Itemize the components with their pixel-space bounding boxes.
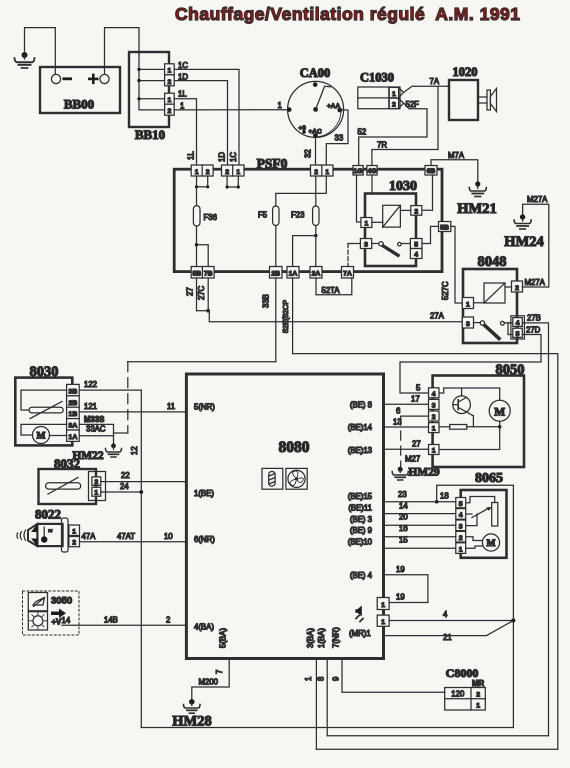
8080 pin (BE) 4 (350, 571, 373, 580)
3050 label (51, 596, 72, 607)
svg-text:14: 14 (62, 616, 71, 625)
wire 6 (8050 pin2 to M27 dashed) (396, 406, 429, 466)
8080 pin (BE)11 (348, 504, 372, 513)
svg-text:2: 2 (168, 79, 172, 86)
8065 potentiometer (466, 497, 498, 527)
svg-text:4: 4 (516, 320, 520, 327)
svg-text:(BE) 4: (BE) 4 (350, 571, 373, 580)
svg-text:(MR)1: (MR)1 (349, 629, 371, 638)
svg-text:2: 2 (94, 479, 98, 486)
svg-text:5B: 5B (440, 225, 449, 232)
8050 transistor (453, 396, 474, 427)
svg-text:F5: F5 (258, 211, 268, 220)
wire net12 bottom link (141, 727, 513, 729)
svg-text:9: 9 (331, 677, 340, 681)
relay 8048 (463, 254, 517, 343)
svg-text:10: 10 (164, 532, 173, 541)
wire 33 (CA00 to PSF0) (326, 110, 348, 165)
wire 22 (8032 pin2 to 8080 1BE) (101, 471, 187, 482)
svg-text:1C: 1C (178, 61, 188, 70)
8050 resistor (439, 425, 502, 430)
8050 pin 4 (429, 388, 440, 398)
wire 27 (8080 BE13 to 8050 second pin1) (384, 440, 429, 450)
8022 pin 1 (69, 525, 80, 536)
heater unit 8030 (15, 364, 72, 445)
BB10 pin 2 (1) (165, 104, 175, 115)
wire 27 (from 5B) (186, 278, 197, 311)
svg-text:5: 5 (516, 331, 520, 338)
8030 pin 3B (67, 384, 80, 395)
svg-text:BB00: BB00 (64, 97, 94, 112)
8080 pin 5(NR) (194, 403, 215, 412)
relay 1030 coil (383, 205, 401, 227)
svg-text:2: 2 (515, 285, 519, 292)
svg-text:5B: 5B (192, 271, 201, 278)
svg-text:1A: 1A (69, 434, 78, 441)
svg-text:1: 1 (476, 703, 480, 710)
8080 aux connector 1 (lower) (377, 615, 389, 626)
svg-text:3050: 3050 (51, 596, 72, 607)
wire 4 (aux connector to junction) (389, 610, 515, 623)
svg-text:22: 22 (121, 471, 130, 480)
svg-text:2: 2 (392, 102, 396, 109)
svg-text:52E(52CP: 52E(52CP (281, 300, 290, 333)
wire bus under 1L connector (195, 176, 209, 188)
svg-text:27B: 27B (527, 313, 541, 322)
svg-text:+V: +V (52, 618, 63, 627)
svg-text:527C: 527C (441, 281, 450, 300)
sensor 8032 (39, 456, 106, 504)
wire 122 (8030 3B to net 12) (79, 380, 141, 390)
svg-text:24: 24 (120, 482, 129, 491)
relay 1030 pin 4 (410, 249, 422, 259)
svg-text:27A: 27A (430, 312, 445, 321)
control unit 8080 (186, 374, 383, 659)
8080 pin (BE) 8 (350, 400, 372, 409)
svg-text:27C: 27C (197, 285, 206, 300)
svg-text:5(BA): 5(BA) (219, 628, 228, 648)
svg-text:1: 1 (168, 97, 172, 104)
wire 1L (174, 90, 196, 165)
wire 8 (8080 1BA down) (317, 659, 328, 736)
svg-text:17: 17 (411, 395, 420, 404)
wire 33B (2B down and left) (128, 278, 276, 362)
fuse F36 (193, 187, 217, 226)
wire 27D (8048 pin5 to 8050 pin4) (400, 325, 541, 393)
relay 8048 contact arm (474, 321, 513, 339)
svg-text:3: 3 (466, 321, 470, 328)
PSF0 bottom connector 5B/7B (191, 267, 214, 279)
svg-text:52TA: 52TA (322, 286, 341, 295)
svg-text:2: 2 (72, 540, 76, 547)
wire 33 to F5 (276, 176, 327, 206)
wire 27A (to 8048 pin 3) (208, 311, 462, 322)
8030 pin 1A (67, 430, 80, 441)
svg-text:(BE)11: (BE)11 (348, 504, 372, 513)
svg-text:Chauffage/Ventilation régulé: Chauffage/Ventilation régulé A.M. 1991 (175, 4, 520, 24)
wire 16 (8080 BE9 to 8065 pin2) (384, 524, 456, 537)
8080 speaker icon (355, 606, 363, 622)
svg-text:1C: 1C (229, 152, 238, 162)
svg-text:20: 20 (399, 513, 408, 522)
svg-text:2: 2 (432, 414, 436, 421)
wire 8030 1A to ground HM22 (79, 436, 113, 444)
svg-text:5: 5 (459, 501, 463, 508)
relay 1030 pin 3 (360, 239, 371, 249)
connector C1030 (358, 71, 404, 109)
wire M33S / 33AC (8030 3A) (79, 415, 128, 436)
wire 4G into PSF0 (371, 175, 373, 194)
svg-text:52F: 52F (406, 100, 420, 109)
svg-text:7B: 7B (204, 271, 213, 278)
wire 13 (8080 BE14 to 8050 pin1) (384, 417, 429, 427)
svg-text:6(NR): 6(NR) (194, 535, 215, 544)
svg-text:2A: 2A (312, 271, 321, 278)
svg-text:19: 19 (396, 565, 405, 574)
8080 pin (BE)13 (348, 446, 372, 455)
wire F5 output to 2B (275, 226, 277, 267)
svg-text:21: 21 (443, 633, 452, 642)
wire 1C (174, 61, 239, 165)
wire 14B / 2 (3050 to 8080 4BA) (62, 616, 186, 626)
PSF0 top connector 2/1 (1D/1C) (222, 165, 245, 176)
wire 32 to F23 (315, 176, 317, 206)
3050 +V 14 labels (52, 616, 71, 627)
8030 motor M (21, 424, 67, 443)
wire F36 output 5B/7B (195, 226, 208, 267)
svg-text:15: 15 (399, 535, 408, 544)
wire M7A (PSF0 6B to ground HM21) (431, 151, 478, 182)
svg-text:33: 33 (335, 134, 344, 143)
C8000 pin 2 (476, 692, 480, 699)
svg-text:1: 1 (432, 426, 436, 433)
relay 8048 pins 4/5 bracket (508, 316, 524, 339)
svg-text:1: 1 (365, 221, 369, 228)
svg-text:122: 122 (84, 380, 97, 389)
svg-text:M27: M27 (405, 455, 420, 464)
svg-text:47AT: 47AT (117, 532, 135, 541)
label 1D rotated (218, 152, 227, 162)
8030 pin 1B (67, 407, 80, 418)
wire 1G to relay 1030 pin 1 (357, 175, 361, 222)
wire 7A (C1030 pin1 to 1020) (404, 77, 449, 93)
8065 pin 3 (456, 520, 466, 531)
PSF0 bottom connector 1A (287, 267, 299, 279)
wire 47A / 47AT / 10 (8022 pin2 to 8080 6NR) (80, 532, 187, 542)
svg-text:52: 52 (358, 128, 367, 137)
wire 121 / 11 (8030 1B to 8080 5NR) (79, 402, 186, 412)
relay 1030 pin 2 (400, 206, 421, 216)
8080 pin (BE)14 (348, 423, 373, 432)
wire 52TA loop (2A to 7A) (316, 278, 352, 295)
svg-text:7A: 7A (430, 77, 440, 86)
svg-text:12: 12 (130, 446, 139, 455)
svg-text:1: 1 (168, 68, 172, 75)
relay 8048 pin 2 (505, 281, 523, 292)
PSF0 top connector 6B (425, 166, 437, 176)
svg-text:+AC: +AC (309, 129, 322, 136)
svg-text:(BE) 8: (BE) 8 (350, 400, 372, 409)
svg-text:1: 1 (459, 546, 463, 553)
wire 8 bottom link to 27B (327, 735, 548, 737)
ignition switch CA00 (287, 66, 344, 138)
svg-text:8: 8 (317, 677, 326, 681)
svg-text:M: M (494, 406, 505, 418)
wire 52E right edge down (557, 354, 559, 750)
svg-text:M27A: M27A (527, 195, 548, 204)
8080 pin 4(BA) (194, 623, 214, 632)
svg-text:7R: 7R (377, 140, 387, 149)
BB10 pin 1 (1C) (165, 64, 175, 75)
ground HM28 (172, 699, 211, 730)
svg-text:1: 1 (381, 602, 385, 609)
8030 thermistor (29, 402, 63, 419)
wire 1 (8080 3BA down) (304, 659, 316, 750)
svg-text:F23: F23 (291, 211, 304, 220)
8080 aux connector 1 (upper) (377, 598, 389, 610)
wire 1 (to CA00) (174, 101, 287, 110)
svg-text:7: 7 (215, 670, 224, 674)
8080 pin 6(NR) (194, 535, 215, 544)
PSF0 top connector 2/1 (32/33) (311, 165, 334, 176)
wire battery plus to BB10 (105, 28, 140, 74)
wire 527C (5B to 8048 pin 1) (441, 226, 462, 303)
wire 15 (8080 BE10 to 8065 pin1) (384, 535, 456, 548)
svg-text:(BE)10: (BE)10 (348, 538, 373, 547)
svg-text:1: 1 (72, 529, 76, 536)
svg-text:8080: 8080 (279, 439, 310, 456)
8022 pin 2 (69, 537, 80, 547)
C8000 pin 1 (476, 703, 480, 710)
svg-text:1: 1 (392, 91, 396, 98)
svg-text:2: 2 (166, 616, 170, 625)
wire 1D (174, 72, 227, 164)
actuator 8065 (461, 471, 507, 558)
8080 pin 1(BE) (194, 489, 214, 498)
wire 23 / 18 (8080 BE15 to 8065 pin5) (384, 490, 456, 504)
svg-text:8065: 8065 (475, 471, 503, 486)
connector BB10 (129, 52, 169, 142)
3050 sun rays (29, 612, 46, 629)
svg-text:14B: 14B (104, 616, 118, 625)
ground HM22 (72, 443, 121, 462)
svg-text:2: 2 (414, 209, 418, 216)
svg-text:3(BA): 3(BA) (306, 628, 315, 648)
8080 pin (BE)15 (348, 492, 373, 501)
relay 8048 pin 3 (462, 317, 473, 328)
wire 17 (8080 BE8 to 8050 pin3) (384, 395, 429, 405)
8050 pin 3 (429, 399, 440, 409)
svg-text:(BE)13: (BE)13 (348, 446, 372, 455)
label 1L rotated (187, 151, 196, 160)
svg-text:(BE) 9: (BE) 9 (350, 526, 372, 535)
svg-text:3: 3 (459, 524, 463, 531)
pressure switch 8022 (17, 507, 68, 553)
svg-text:1A: 1A (289, 271, 298, 278)
svg-text:1: 1 (432, 448, 436, 455)
blower unit 8050 (433, 362, 525, 467)
svg-text:18: 18 (440, 492, 449, 501)
wire 19 loop (BE4 to aux connector) (384, 565, 428, 603)
svg-text:121: 121 (84, 402, 97, 411)
svg-text:7(NR): 7(NR) (332, 627, 341, 648)
svg-text:HM24: HM24 (504, 234, 543, 250)
svg-text:6: 6 (396, 406, 400, 415)
PSF0 top connector 1/2 (1L) (191, 165, 213, 176)
svg-text:1: 1 (278, 101, 282, 110)
svg-text:16: 16 (399, 524, 408, 533)
svg-text:2: 2 (168, 108, 172, 115)
wire relay 1030 pin5 to 5B (422, 226, 439, 243)
PSF0 bottom connector 2A (310, 267, 322, 279)
svg-text:5: 5 (414, 242, 418, 249)
8030 pin 2B (67, 396, 80, 407)
label 1C rotated (229, 152, 238, 162)
8065 pin 5 (456, 498, 466, 508)
svg-text:M200: M200 (199, 678, 219, 687)
svg-text:3: 3 (432, 403, 436, 410)
wire 52E(52CP (1A down right) (281, 278, 558, 354)
wire 9 (8080 7NR to C8000) (331, 659, 444, 693)
svg-text:33B: 33B (262, 294, 271, 308)
8065 pin 1 (456, 543, 466, 554)
wire 12 vertical (130, 390, 141, 727)
8050 pin 1 (429, 423, 440, 433)
wire battery minus to ground (25, 28, 56, 74)
8080 pin 1(BA) (317, 628, 326, 648)
svg-text:2: 2 (225, 169, 229, 176)
svg-text:6B: 6B (427, 168, 436, 175)
svg-text:1B: 1B (69, 411, 78, 418)
svg-text:(BE)14: (BE)14 (348, 423, 373, 432)
8050 pin 1 (lower) (429, 445, 440, 455)
wire M200 (8080 5BA to ground HM28) (192, 659, 229, 700)
battery BB00 (40, 67, 120, 113)
svg-text:HM21: HM21 (457, 201, 496, 217)
relay 8048 coil (484, 283, 505, 303)
svg-text:C1030: C1030 (360, 71, 394, 85)
svg-text:3: 3 (364, 242, 368, 249)
svg-text:1G: 1G (354, 168, 363, 175)
svg-text:+0: +0 (299, 125, 307, 132)
relay 1030 contact arm (372, 242, 411, 256)
svg-text:1: 1 (180, 102, 184, 111)
svg-text:1020: 1020 (453, 65, 478, 79)
8065 pin 2 (456, 531, 466, 542)
svg-text:27: 27 (186, 287, 195, 296)
svg-text:1D: 1D (178, 72, 188, 81)
svg-text:≈: ≈ (49, 528, 53, 535)
8080 pin 3(BA) (306, 628, 315, 648)
relay 1030 (365, 179, 417, 266)
BB10 pin 1 (1L) (165, 93, 175, 104)
8080 pin 7(NR) (332, 627, 341, 648)
svg-text:M: M (487, 539, 496, 549)
ground HM24 (504, 214, 543, 250)
wire 33AC dashed link (127, 362, 129, 433)
svg-text:4: 4 (459, 512, 463, 519)
relay 8048 pin 1 (462, 298, 484, 309)
8080 heater icon (262, 468, 283, 489)
PSF0 bottom connector 7A (342, 267, 354, 279)
8080 pin (BE) 3 (350, 515, 372, 524)
svg-text:27D: 27D (526, 325, 541, 334)
svg-text:1: 1 (466, 301, 470, 308)
buzzer 1020 (449, 65, 497, 120)
svg-text:1(BE): 1(BE) (194, 489, 214, 498)
svg-text:(BE) 3: (BE) 3 (350, 515, 372, 524)
8050 internal wiring (439, 388, 500, 400)
svg-text:4(BA): 4(BA) (194, 623, 214, 632)
svg-text:4: 4 (414, 252, 418, 259)
wire 7R (junction to PSF0 4G) (372, 86, 438, 165)
ground HM29 (392, 467, 440, 481)
svg-text:2B: 2B (271, 271, 280, 278)
fuse F5 (258, 206, 279, 226)
8030 thermistor loop to pin 3B (21, 390, 67, 410)
8080 pin (MR)1 (349, 629, 371, 638)
PSF0 top connector 4G (367, 166, 377, 176)
svg-text:5(NR): 5(NR) (194, 403, 215, 412)
PSF0 top connector 1G (353, 166, 363, 176)
svg-text:8048: 8048 (478, 254, 507, 270)
svg-text:7A: 7A (343, 271, 352, 278)
fuse F23 (291, 206, 319, 226)
svg-text:2: 2 (206, 169, 210, 176)
BB10 pin 2 (1D) (165, 75, 175, 86)
wire 21 (8080 MR1 to junction) (384, 621, 514, 642)
3050 arrow (51, 609, 66, 619)
wire 52F / 52 (C1030 pin2 to PSF0 1G) (358, 100, 428, 165)
svg-text:1: 1 (304, 677, 313, 681)
svg-text:19: 19 (396, 593, 405, 602)
C1030 pin 2 (389, 98, 398, 108)
ground (battery negative) (15, 52, 35, 68)
svg-text:M7A: M7A (448, 151, 465, 160)
8080 fan icon (286, 468, 307, 489)
svg-text:2: 2 (459, 535, 463, 542)
ground HM21 (457, 181, 496, 217)
svg-text:1: 1 (381, 619, 385, 626)
svg-text:47A: 47A (82, 532, 97, 541)
svg-text:1030: 1030 (389, 179, 417, 194)
svg-text:23: 23 (398, 490, 407, 499)
PSF0 bottom connector 2B (270, 267, 283, 279)
svg-text:8022: 8022 (35, 507, 61, 522)
relay 8048 pin 5 (513, 328, 523, 338)
wire bus under 1D/1C connector (226, 176, 240, 189)
fuse box PSF0 (174, 156, 442, 272)
PSF0 right connector 5B (439, 222, 451, 232)
svg-text:27: 27 (412, 440, 421, 449)
svg-text:F36: F36 (204, 213, 217, 222)
8050 motor M (439, 400, 510, 449)
svg-text:3A: 3A (69, 423, 78, 430)
svg-text:MR: MR (472, 679, 484, 688)
svg-text:11: 11 (167, 402, 175, 411)
svg-text:14: 14 (399, 501, 408, 510)
8030 pin 3A (67, 419, 80, 430)
wire 18 branch (to junction 4/21) (437, 485, 514, 727)
relay 1030 pin 1 (361, 218, 383, 228)
svg-text:3B: 3B (69, 388, 78, 395)
svg-text:M: M (37, 432, 46, 442)
wire 27B (8048 pin4 to right edge down) (522, 313, 548, 735)
wire M27A (8048 pin2 to ground HM24) (522, 195, 548, 287)
svg-text:2B: 2B (69, 400, 78, 407)
svg-text:4: 4 (443, 610, 448, 619)
svg-text:5: 5 (416, 383, 421, 392)
